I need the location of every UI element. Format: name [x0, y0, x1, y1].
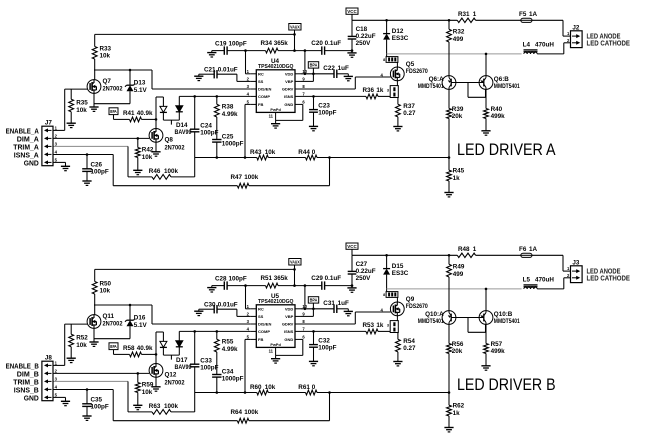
junction	[129, 69, 132, 72]
svg-text:0.27: 0.27	[403, 110, 416, 117]
svg-text:1k: 1k	[376, 87, 384, 94]
wire DIM net to Q8 gate	[53, 372, 149, 374]
svg-text:0.22uF: 0.22uF	[356, 268, 376, 275]
wire Q7 drain to DIS/EN	[94, 305, 250, 324]
svg-text:LED CATHODE: LED CATHODE	[587, 40, 631, 47]
svg-text:R34: R34	[261, 40, 273, 47]
svg-text:0.01uF: 0.01uF	[218, 67, 238, 74]
ground	[82, 181, 91, 185]
transistor Q6:A MMDT5401	[418, 76, 456, 91]
wire Q6B collector	[485, 54, 487, 76]
resistor R34 365k	[246, 40, 295, 53]
junction	[193, 95, 196, 98]
wire divider line	[195, 392, 257, 394]
junction	[351, 49, 354, 52]
svg-text:J2: J2	[572, 24, 580, 31]
svg-text:ENABLE_A: ENABLE_A	[6, 129, 39, 136]
svg-text:1000pF: 1000pF	[222, 376, 244, 383]
junction	[129, 304, 132, 307]
fuse F5 1A	[519, 11, 538, 22]
svg-text:FB: FB	[258, 102, 263, 107]
svg-text:D15: D15	[392, 263, 404, 270]
svg-text:DIM_B: DIM_B	[17, 372, 39, 379]
wire TRIM net	[53, 146, 128, 177]
junction	[244, 49, 247, 52]
junction	[485, 53, 488, 56]
svg-text:10: 10	[302, 69, 307, 74]
connector J8	[42, 355, 58, 401]
svg-text:R58: R58	[123, 345, 135, 352]
wire GND pin	[53, 397, 66, 401]
svg-text:499: 499	[453, 36, 464, 43]
junction	[244, 156, 247, 159]
capacitor C24 100pF	[190, 96, 219, 157]
junction	[328, 156, 331, 159]
ground	[271, 124, 280, 128]
transistor Q9 FDS2670	[383, 292, 428, 333]
svg-text:R64: R64	[231, 409, 243, 416]
svg-text:BPA: BPA	[110, 109, 116, 114]
svg-text:C27: C27	[356, 261, 368, 268]
svg-text:J8: J8	[45, 355, 53, 362]
ground	[271, 359, 280, 363]
svg-text:0.1uF: 0.1uF	[325, 40, 342, 47]
svg-text:5.1V: 5.1V	[134, 322, 148, 329]
svg-text:0: 0	[312, 384, 316, 391]
capacitor C32 100pF	[309, 331, 337, 361]
junction	[304, 73, 307, 76]
junction	[86, 153, 89, 156]
svg-text:470uH: 470uH	[535, 41, 554, 48]
svg-text:0.1uF: 0.1uF	[325, 275, 342, 282]
wire	[268, 392, 305, 394]
svg-text:R47: R47	[231, 174, 243, 181]
svg-text:TRIM_B: TRIM_B	[13, 380, 39, 387]
connector J3	[567, 259, 582, 282]
wire power line	[352, 254, 457, 256]
svg-text:GND: GND	[24, 396, 39, 403]
transistor Q8 2N7002	[149, 129, 185, 152]
resistor R63 100k	[128, 393, 195, 415]
svg-text:11: 11	[269, 114, 274, 119]
svg-text:J7: J7	[45, 120, 53, 127]
wire DIM net to Q8 gate	[53, 137, 149, 139]
ground	[344, 76, 353, 80]
diode D14 BAV99	[156, 96, 192, 136]
junction	[155, 353, 158, 356]
svg-text:10k: 10k	[100, 53, 111, 60]
svg-text:1000pF: 1000pF	[222, 141, 244, 148]
svg-text:1k: 1k	[453, 410, 461, 417]
capacitor C26 100pF	[82, 155, 109, 182]
svg-text:MMDT5401: MMDT5401	[494, 83, 520, 90]
junction	[312, 308, 315, 311]
svg-text:100k: 100k	[244, 174, 259, 181]
wire net VAUX horizontal	[95, 268, 295, 270]
svg-text:4.99k: 4.99k	[222, 111, 238, 118]
svg-text:20k: 20k	[452, 113, 463, 120]
capacitor C27 0.22uF 250V	[348, 255, 376, 288]
ground	[89, 107, 98, 111]
net label BPA	[109, 108, 118, 120]
wire divider line	[195, 157, 257, 159]
junction	[293, 49, 296, 52]
zener diode D16 5.1V	[125, 305, 148, 339]
svg-text:C28: C28	[215, 275, 227, 282]
wire ISNS sense line	[301, 330, 366, 332]
wire COMP line	[179, 330, 250, 332]
wire	[476, 19, 521, 21]
wire GDRV to gate	[301, 308, 391, 325]
svg-text:100pF: 100pF	[200, 129, 218, 136]
svg-text:3: 3	[387, 89, 389, 93]
svg-text:D17: D17	[176, 357, 188, 364]
junction	[385, 19, 388, 22]
svg-text:1A: 1A	[529, 246, 538, 253]
svg-text:J3: J3	[572, 259, 580, 266]
svg-text:VAUX: VAUX	[290, 259, 300, 264]
capacitor C33 100pF	[190, 331, 219, 392]
wire D13 anode to Q7 source	[94, 103, 130, 105]
svg-text:R32: R32	[453, 29, 465, 36]
svg-text:GDRV: GDRV	[282, 87, 294, 92]
svg-text:R36: R36	[363, 87, 375, 94]
svg-text:8: 8	[383, 293, 385, 297]
ground	[82, 416, 91, 420]
ground	[61, 401, 70, 405]
svg-text:D13: D13	[134, 80, 146, 87]
svg-text:R35: R35	[76, 100, 88, 107]
svg-text:1A: 1A	[529, 11, 538, 18]
fuse F6 1A	[519, 246, 538, 257]
label connector pins	[6, 364, 39, 403]
zener diode D13 5.1V	[125, 70, 148, 104]
svg-text:499k: 499k	[491, 348, 506, 355]
svg-text:1k: 1k	[376, 322, 384, 329]
svg-text:R61: R61	[298, 384, 310, 391]
svg-text:Q10:A: Q10:A	[425, 311, 444, 318]
diode D15 ES3C	[383, 255, 409, 291]
junction	[312, 95, 315, 98]
ground	[481, 131, 490, 135]
svg-text:C24: C24	[200, 122, 212, 129]
capacitor C21 0.01uF	[199, 67, 251, 82]
svg-text:10k: 10k	[265, 384, 276, 391]
svg-text:C21: C21	[204, 67, 216, 74]
wire power line	[352, 19, 457, 21]
ground	[194, 74, 203, 80]
svg-text:FDS2670: FDS2670	[406, 303, 428, 310]
svg-text:R50: R50	[100, 281, 112, 288]
svg-text:R51: R51	[261, 275, 273, 282]
capacitor C28 100pF	[212, 275, 247, 290]
resistor R51 365k	[246, 275, 295, 288]
svg-text:R31: R31	[458, 11, 470, 18]
wire net LED return	[387, 288, 522, 290]
resistor R60 10k	[250, 384, 276, 395]
svg-text:4.99k: 4.99k	[222, 346, 238, 353]
capacitor C30 0.01uF	[199, 302, 251, 317]
net label VCC	[346, 8, 358, 20]
svg-text:COMP: COMP	[258, 94, 270, 99]
svg-text:10k: 10k	[265, 149, 276, 156]
resistor R46 100k	[128, 158, 195, 180]
svg-text:D16: D16	[134, 315, 146, 322]
wire COMP line	[179, 95, 250, 97]
transistor Q10:B MMDT5401	[479, 311, 520, 326]
svg-text:BPA: BPA	[110, 344, 116, 349]
resistor R43 10k	[250, 149, 276, 160]
wire base link	[456, 83, 486, 98]
svg-text:100pF: 100pF	[318, 110, 336, 117]
ground	[393, 362, 402, 366]
svg-text:ES3C: ES3C	[392, 270, 409, 277]
junction	[155, 118, 158, 121]
svg-text:Q10:B: Q10:B	[494, 311, 513, 318]
wire TRIM net	[53, 381, 128, 412]
svg-text:R41: R41	[123, 110, 135, 117]
ground	[347, 288, 356, 292]
junction	[385, 254, 388, 257]
resistor R35 10k	[69, 89, 88, 123]
svg-text:C25: C25	[222, 134, 234, 141]
wire ENABLE net	[53, 89, 87, 130]
wire GND pin to pad	[276, 339, 303, 358]
svg-text:FB: FB	[258, 337, 263, 342]
svg-text:ISNS_B: ISNS_B	[14, 388, 39, 395]
svg-text:GND: GND	[284, 102, 293, 107]
svg-text:GDRV: GDRV	[282, 322, 294, 327]
svg-text:R53: R53	[363, 322, 375, 329]
svg-text:Q6:B: Q6:B	[494, 76, 509, 83]
svg-text:FDS2670: FDS2670	[406, 68, 428, 75]
svg-text:R55: R55	[222, 339, 234, 346]
svg-text:C26: C26	[91, 161, 103, 168]
svg-text:1: 1	[473, 246, 477, 253]
svg-text:GND: GND	[24, 161, 39, 168]
ground	[67, 123, 76, 127]
svg-text:LED DRIVER B: LED DRIVER B	[457, 375, 556, 394]
resistor R59 10k	[135, 373, 153, 405]
svg-text:BAV99: BAV99	[175, 364, 192, 371]
net label VAUX	[289, 259, 301, 286]
capacitor C35 100pF	[82, 390, 109, 417]
wire Q8 drain riser	[155, 332, 157, 364]
op-amp controller U4 TPS40210DGQ	[247, 58, 308, 120]
transistor Q10:A MMDT5401	[418, 311, 456, 326]
junction	[351, 284, 354, 287]
svg-text:DIS/EN: DIS/EN	[258, 87, 271, 92]
svg-text:10: 10	[302, 304, 307, 309]
wire GND pin	[53, 162, 66, 166]
svg-text:ISNS: ISNS	[284, 329, 294, 334]
resistor R55 4.99k	[214, 331, 238, 353]
svg-text:1: 1	[473, 11, 477, 18]
wire net VAUX horizontal	[95, 33, 295, 35]
svg-text:3: 3	[387, 324, 389, 328]
resistor R40 499k	[484, 89, 506, 130]
svg-text:ENABLE_B: ENABLE_B	[6, 364, 39, 371]
svg-text:100k: 100k	[244, 409, 259, 416]
svg-text:L4: L4	[523, 41, 531, 48]
net label VCC	[346, 243, 358, 255]
svg-text:R39: R39	[452, 106, 464, 113]
resistor R37 0.27	[396, 98, 417, 127]
junction	[293, 268, 296, 271]
junction	[448, 19, 451, 22]
junction	[293, 284, 296, 287]
junction	[216, 156, 219, 159]
junction	[448, 391, 451, 394]
svg-text:8: 8	[383, 58, 385, 62]
resistor R31 1	[457, 11, 477, 22]
diode D17 BAV99	[156, 331, 192, 371]
svg-text:100pF: 100pF	[91, 404, 109, 411]
resistor R61 0	[298, 384, 317, 395]
svg-text:SS: SS	[258, 314, 264, 319]
svg-text:Q6:A: Q6:A	[429, 76, 444, 83]
svg-text:PwPd: PwPd	[270, 343, 281, 347]
svg-text:100pF: 100pF	[318, 345, 336, 352]
svg-text:250V: 250V	[356, 40, 372, 47]
svg-text:100pF: 100pF	[200, 364, 218, 371]
wire base link	[456, 318, 486, 333]
svg-text:DIM_A: DIM_A	[17, 137, 39, 144]
svg-text:C23: C23	[318, 102, 330, 109]
ground	[347, 53, 356, 57]
svg-text:VDD: VDD	[285, 306, 294, 311]
junction	[216, 391, 219, 394]
ground	[133, 405, 142, 409]
svg-text:C29: C29	[311, 275, 323, 282]
inductor L5 470uH	[523, 276, 571, 289]
svg-text:11: 11	[269, 349, 274, 354]
svg-text:SS: SS	[258, 79, 264, 84]
junction	[304, 308, 307, 311]
svg-text:L5: L5	[523, 276, 531, 283]
connector J2	[567, 24, 582, 47]
svg-text:R49: R49	[453, 264, 465, 271]
ground	[67, 358, 76, 362]
ground	[61, 166, 70, 170]
transistor Q7 2N7002	[87, 78, 123, 93]
transistor Q6:B MMDT5401	[479, 76, 520, 91]
junction	[137, 137, 140, 140]
svg-text:Q5: Q5	[406, 61, 415, 68]
ground	[309, 361, 318, 365]
svg-text:R62: R62	[453, 403, 465, 410]
svg-text:R40: R40	[491, 106, 503, 113]
transistor Q11 2N7002	[87, 313, 123, 328]
capacitor C23 100pF	[309, 96, 337, 126]
svg-text:499k: 499k	[491, 113, 506, 120]
svg-text:499: 499	[453, 271, 464, 278]
svg-text:R43: R43	[250, 149, 262, 156]
junction	[216, 330, 219, 333]
svg-text:10k: 10k	[76, 107, 87, 114]
ground	[444, 428, 453, 432]
wire FB pin to divider	[245, 104, 250, 157]
svg-text:0.22uF: 0.22uF	[356, 33, 376, 40]
capacitor C25 1000pF	[212, 117, 244, 158]
svg-text:C18: C18	[356, 26, 368, 33]
svg-text:GND: GND	[284, 337, 293, 342]
svg-text:250V: 250V	[356, 275, 372, 282]
svg-text:Q12: Q12	[165, 372, 177, 379]
junction	[244, 391, 247, 394]
ground	[481, 366, 490, 370]
wire to connector	[532, 20, 571, 36]
svg-text:C31: C31	[323, 300, 335, 307]
net label BPA	[301, 62, 319, 82]
resistor R33 10k	[92, 34, 111, 79]
resistor R45 1k	[447, 158, 465, 193]
transistor Q5 FDS2670	[383, 57, 428, 98]
ground	[151, 387, 160, 391]
svg-text:470uH: 470uH	[535, 276, 554, 283]
svg-text:F6: F6	[519, 246, 527, 253]
svg-text:100pF: 100pF	[229, 275, 247, 282]
svg-text:R38: R38	[222, 104, 234, 111]
resistor R62 1k	[447, 393, 465, 428]
wire	[476, 254, 521, 256]
svg-text:LED CATHODE: LED CATHODE	[587, 275, 631, 282]
net label BPA	[301, 297, 319, 317]
svg-text:100pF: 100pF	[91, 169, 109, 176]
ground	[133, 170, 142, 174]
svg-text:0.27: 0.27	[403, 345, 416, 352]
wire RC pin riser	[246, 51, 251, 74]
svg-text:20k: 20k	[452, 348, 463, 355]
svg-text:D14: D14	[176, 122, 188, 129]
svg-text:Q8: Q8	[165, 137, 174, 144]
svg-text:2N7002: 2N7002	[103, 86, 123, 93]
resistor R56 20k	[447, 324, 464, 392]
wire ISNS net	[53, 390, 113, 421]
junction	[448, 156, 451, 159]
svg-text:Q7: Q7	[103, 78, 112, 85]
svg-text:1uF: 1uF	[338, 300, 349, 307]
wire RC pin riser	[246, 286, 251, 309]
resistor R41 40.9k	[114, 110, 157, 122]
resistor R50 10k	[92, 269, 111, 314]
resistor R57 499k	[484, 324, 506, 365]
svg-text:ISNS: ISNS	[284, 94, 294, 99]
ground	[309, 126, 318, 130]
junction	[293, 33, 296, 36]
svg-text:RC: RC	[258, 71, 264, 76]
svg-text:TRIM_A: TRIM_A	[13, 145, 39, 152]
resistor R42 10k	[135, 138, 153, 170]
junction	[485, 288, 488, 291]
svg-text:10k: 10k	[142, 389, 153, 396]
svg-text:0.01uF: 0.01uF	[218, 302, 238, 309]
svg-text:C19: C19	[215, 40, 227, 47]
svg-text:R63: R63	[149, 403, 161, 410]
junction	[448, 254, 451, 257]
svg-text:1k: 1k	[453, 175, 461, 182]
wire Q6B collector	[485, 289, 487, 311]
resistor R38 4.99k	[214, 96, 238, 118]
junction	[216, 95, 219, 98]
wire GDRV to gate	[301, 73, 391, 90]
connector J7	[42, 120, 58, 166]
svg-text:10k: 10k	[76, 342, 87, 349]
svg-text:BPA: BPA	[310, 298, 318, 303]
svg-text:F5: F5	[519, 11, 527, 18]
svg-text:R52: R52	[76, 335, 88, 342]
svg-text:C30: C30	[204, 302, 216, 309]
